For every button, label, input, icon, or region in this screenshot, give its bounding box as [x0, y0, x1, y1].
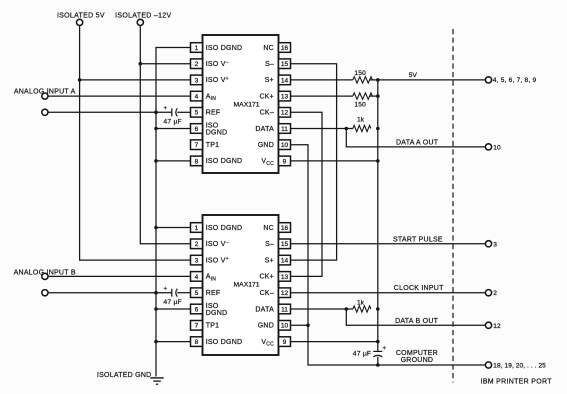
wire: analog input A to U1 pin 4 — [48, 95, 191, 97]
U2 pin 10 box — [279, 321, 291, 331]
svg-text:NC: NC — [263, 225, 274, 232]
svg-text:5V: 5V — [409, 72, 418, 79]
svg-text:ISO V–: ISO V– — [206, 60, 229, 68]
junction: ISO DGND rail at U2 pin1 — [154, 226, 158, 230]
wire: REF B terminal to capacitor C2 — [48, 292, 172, 294]
svg-text:11: 11 — [281, 126, 288, 133]
wire: capacitor C3 to computer ground — [377, 357, 379, 365]
op-amp-style IC U1 MAX171 body — [203, 35, 279, 173]
U2 pin 15 label S&#8211; — [265, 241, 274, 248]
U1 pin 14 box — [279, 75, 291, 85]
U2 pin 14 label S+ — [265, 257, 274, 264]
U2 pin 5 box — [191, 288, 203, 298]
svg-text:10: 10 — [281, 142, 289, 149]
U2 pin 5 label REF — [206, 290, 221, 297]
svg-text:11: 11 — [281, 306, 288, 313]
op-amp-style IC U2 MAX171 body — [203, 215, 279, 355]
junction: ISO DGND rail at U2 pin8 — [154, 340, 158, 344]
junction: 5V rail at R3 — [376, 127, 380, 131]
terminal printer port pin 12 — [485, 322, 501, 330]
U1 pin 10 box — [279, 140, 291, 150]
svg-text:12: 12 — [281, 290, 289, 297]
terminal ANALOG INPUT A — [14, 88, 76, 99]
svg-text:+: + — [383, 346, 387, 352]
junction: 5V rail at U1 VCC — [376, 159, 380, 163]
U2 pin 6 label ISO DGND (2-line) — [206, 303, 228, 317]
U2 pin 11 label DATA — [255, 306, 274, 313]
U2 pin 6 box — [191, 304, 203, 314]
svg-text:S+: S+ — [265, 77, 274, 84]
junction: DATA A node — [345, 127, 349, 131]
svg-text:10: 10 — [493, 144, 501, 151]
U1 pin 14 label S+ — [265, 77, 274, 84]
U1 pin 7 box — [191, 140, 203, 150]
wire: U1 pin 3 ISO V+ — [80, 79, 191, 81]
svg-text:2: 2 — [195, 61, 199, 68]
wire: U1 pin 9 VCC to 5V rail — [291, 160, 378, 162]
svg-text:13: 13 — [281, 274, 289, 281]
U2 pin 4 label AIN — [206, 274, 217, 283]
svg-text:4: 4 — [195, 274, 199, 281]
svg-text:START PULSE: START PULSE — [393, 237, 443, 244]
U2 pin 3 label ISO V+ — [206, 256, 229, 264]
U1 pin 5 label REF — [206, 110, 221, 117]
svg-text:MAX171: MAX171 — [234, 282, 260, 289]
svg-text:ISO V+: ISO V+ — [206, 76, 229, 84]
svg-text:DATA: DATA — [255, 306, 274, 313]
wire: ISO DGND rail (U1 pin1 down to isolated ground) — [156, 48, 191, 377]
resistor R1 150 — [353, 70, 373, 83]
U1 pin 12 box — [279, 108, 291, 118]
wire: U2 pin 1 ISO DGND — [156, 227, 191, 229]
junction: 5V rail at R4 — [376, 307, 380, 311]
wire: U1 pin 14 S+ to resistor R1 — [291, 79, 353, 81]
svg-text:ISO DGND: ISO DGND — [206, 225, 243, 232]
wire: U1 pin 10 GND to ground vertical rail — [291, 145, 486, 365]
svg-text:6: 6 — [195, 306, 199, 313]
wire: ISOLATED 5V rail down to U2 pin 3 — [80, 25, 191, 260]
U1 pin 9 label VCC — [261, 158, 274, 167]
junction: ground rail at U2 GND — [306, 324, 310, 328]
svg-text:TP1: TP1 — [206, 142, 220, 149]
U2 pin 13 label CK+ — [259, 274, 274, 281]
junction: ISOLATED -12V to U1 pin 2 — [139, 62, 143, 66]
wire: U2 pin 15 S- START PULSE to printer port pin 3 — [291, 237, 486, 244]
junction: computer ground at C3 — [376, 363, 380, 367]
wire: U1 pin 12 CK- to U2 pin 13 CK+ — [291, 112, 323, 276]
svg-text:CK–: CK– — [260, 110, 274, 117]
U1 pin 11 box — [279, 124, 291, 134]
svg-text:1k: 1k — [357, 300, 365, 307]
svg-text:12: 12 — [493, 323, 501, 330]
wire: resistor R2 to 5V rail — [370, 95, 378, 97]
svg-text:1k: 1k — [357, 117, 365, 124]
junction: 5V rail at R2 — [376, 94, 380, 98]
svg-text:5: 5 — [195, 110, 199, 117]
U2 pin 1 box — [191, 223, 203, 233]
svg-text:18, 19, 20, . . . 25: 18, 19, 20, . . . 25 — [493, 363, 546, 370]
wire: resistor R1 to 5V node — [370, 79, 378, 81]
resistor R2 150 — [353, 93, 373, 108]
svg-text:3: 3 — [493, 241, 497, 248]
U1 pin 13 box — [279, 91, 291, 101]
svg-text:16: 16 — [281, 45, 289, 52]
svg-text:2: 2 — [195, 241, 199, 248]
U1 pin 2 label ISO V&#8211; — [206, 60, 229, 68]
svg-text:CK+: CK+ — [259, 274, 274, 281]
svg-text:CLOCK INPUT: CLOCK INPUT — [394, 285, 444, 292]
U2 pin 2 box — [191, 239, 203, 249]
svg-text:9: 9 — [283, 339, 287, 346]
wire: U2 pin 11 DATA to resistor R4 — [291, 308, 353, 310]
svg-text:5: 5 — [195, 290, 199, 297]
terminal ANALOG INPUT B — [14, 269, 76, 279]
wire: capacitor C1 to U1 pin 5 REF — [177, 111, 190, 113]
svg-text:7: 7 — [195, 142, 199, 149]
resistor R4 1k pull-up — [353, 300, 371, 313]
U1 pin 15 box — [279, 59, 291, 69]
svg-text:MAX171: MAX171 — [234, 102, 260, 109]
U2 pin 4 box — [191, 272, 203, 282]
svg-text:IBM PRINTER PORT: IBM PRINTER PORT — [481, 378, 553, 385]
svg-text:DGND: DGND — [206, 129, 228, 136]
U1 pin 6 box — [191, 124, 203, 134]
terminal ISOLATED -12V — [115, 13, 171, 26]
U1 pin 5 box — [191, 108, 203, 118]
node 5V: label and wire to printer port — [378, 72, 486, 80]
svg-text:8: 8 — [195, 158, 199, 165]
svg-text:150: 150 — [354, 101, 366, 108]
svg-text:S–: S– — [265, 241, 274, 248]
wire: U2 pin 10 GND to ground vertical rail — [291, 324, 309, 326]
U2 pin 9 box — [279, 337, 291, 347]
ground: ISOLATED GND symbol — [97, 372, 164, 384]
wire: ISOLATED -12V rail down to U2 pin 2 — [140, 25, 190, 243]
svg-text:ISO V–: ISO V– — [206, 240, 229, 248]
U1 pin 7 label TP1 — [206, 142, 220, 149]
svg-text:10: 10 — [281, 323, 289, 330]
terminal REF B input — [42, 290, 48, 296]
svg-text:ISO V+: ISO V+ — [206, 256, 229, 264]
svg-text:GROUND: GROUND — [401, 357, 434, 364]
U2 pin 2 label ISO V&#8211; — [206, 240, 229, 248]
svg-text:DATA A OUT: DATA A OUT — [396, 140, 439, 147]
svg-text:12: 12 — [281, 110, 289, 117]
capacitor C3 47uF (computer ground bypass) — [353, 346, 387, 357]
U1 pin 1 label ISO DGND — [206, 45, 243, 52]
terminal printer port pins 18,19,20...25 — [485, 362, 546, 370]
U2 pin 12 box — [279, 288, 291, 298]
svg-text:+: + — [164, 287, 168, 293]
svg-text:6: 6 — [195, 126, 199, 133]
U2 pin 16 label NC — [263, 225, 274, 232]
U2 pin 12 label CK&#8211; — [260, 290, 274, 297]
svg-text:REF: REF — [206, 110, 221, 117]
terminal printer port pin 3 — [485, 241, 497, 249]
U1 pin 15 label S&#8211; — [265, 61, 274, 68]
wire: U1 pin 11 DATA to resistor R3 — [291, 128, 353, 130]
wire: DATA A OUT to printer port pin 10 — [346, 129, 485, 147]
wire: U1 pin 2 ISO V- — [140, 63, 190, 65]
svg-text:13: 13 — [281, 94, 289, 101]
svg-text:DATA B OUT: DATA B OUT — [395, 318, 439, 325]
svg-text:ISOLATED 5V: ISOLATED 5V — [57, 13, 105, 20]
wire: U2 pin 12 CK- CLOCK INPUT to printer port pin 2 — [291, 285, 486, 293]
svg-text:47 µF: 47 µF — [163, 119, 182, 126]
junction: ISO DGND rail at U2 REF — [154, 291, 158, 295]
junction: ISO DGND rail at U2 pin6 — [154, 307, 158, 311]
U1 pin 8 label ISO DGND — [206, 158, 243, 165]
svg-text:S+: S+ — [265, 257, 274, 264]
svg-text:GND: GND — [258, 323, 274, 330]
IBM printer port boundary (dashed) — [452, 29, 454, 383]
U2 pin 1 label ISO DGND — [206, 225, 243, 232]
terminal REF A input — [42, 109, 48, 115]
svg-text:NC: NC — [263, 45, 274, 52]
U1 pin 6 label ISO DGND (2-line) — [206, 123, 228, 137]
U1 pin 16 label NC — [263, 45, 274, 52]
wire: 5V vertical rail — [377, 80, 379, 352]
terminal ISOLATED 5V — [57, 13, 105, 26]
svg-text:ISO DGND: ISO DGND — [206, 158, 243, 165]
wire: U1 pin 13 CK+ to resistor R2 — [291, 95, 353, 97]
U2 pin 9 label VCC — [261, 339, 274, 348]
U1 pin 12 label CK&#8211; — [260, 110, 274, 117]
svg-text:REF: REF — [206, 290, 221, 297]
U1 pin 4 label AIN — [206, 93, 217, 102]
capacitor C2 47uF (U2 REF) — [163, 287, 182, 307]
U1 pin 11 label DATA — [255, 126, 274, 133]
junction: 5V rail at R1 — [376, 78, 380, 82]
U1 pin 1 box — [191, 43, 203, 53]
wire: U2 pin 8 ISO DGND — [156, 341, 191, 343]
svg-text:GND: GND — [258, 142, 274, 149]
junction: ISO DGND rail at U1 pin6 — [154, 127, 158, 131]
wire: U1 pin 8 ISO DGND — [156, 160, 191, 162]
svg-text:14: 14 — [281, 77, 289, 84]
svg-text:150: 150 — [354, 70, 366, 77]
junction: ISO DGND rail at U1 pin8 — [154, 159, 158, 163]
terminal pins 4,5,6,7,8,9 — [485, 77, 536, 84]
svg-text:2: 2 — [493, 290, 497, 297]
wire: U2 pin 9 VCC to 5V rail — [291, 341, 378, 343]
label IBM PRINTER PORT — [481, 378, 553, 385]
svg-text:15: 15 — [281, 241, 289, 248]
wire: capacitor C2 to U2 pin 5 REF — [177, 292, 190, 294]
resistor R3 1k pull-up — [353, 117, 371, 132]
U2 pin 7 label TP1 — [206, 323, 220, 330]
svg-text:8: 8 — [195, 339, 199, 346]
U2 pin 11 box — [279, 304, 291, 314]
junction: DATA B node — [345, 307, 349, 311]
capacitor C1 47uF (U1 REF) — [163, 106, 182, 126]
svg-text:+: + — [164, 106, 168, 112]
svg-text:7: 7 — [195, 323, 199, 330]
svg-text:CK–: CK– — [260, 290, 274, 297]
svg-text:16: 16 — [281, 225, 289, 232]
svg-text:ISO DGND: ISO DGND — [206, 45, 243, 52]
svg-text:3: 3 — [195, 258, 199, 265]
svg-text:3: 3 — [195, 77, 199, 84]
terminal printer port pin 2 — [485, 290, 497, 298]
U1 pin 13 label CK+ — [259, 93, 274, 100]
U1 pin 3 label ISO V+ — [206, 76, 229, 84]
U2 pin 8 box — [191, 337, 203, 347]
U1 pin 3 box — [191, 75, 203, 85]
wire: DATA B OUT to printer port pin 12 — [346, 309, 485, 325]
U2 pin 8 label ISO DGND — [206, 339, 243, 346]
svg-text:15: 15 — [281, 61, 289, 68]
svg-text:CK+: CK+ — [259, 93, 274, 100]
terminal printer port pin 10 — [485, 144, 501, 152]
wire: analog input B to U2 pin 4 — [48, 275, 191, 277]
svg-text:DGND: DGND — [206, 310, 228, 317]
U2 pin 15 box — [279, 239, 291, 249]
svg-text:S–: S– — [265, 61, 274, 68]
U1 pin 2 box — [191, 59, 203, 69]
svg-text:47 µF: 47 µF — [353, 350, 372, 357]
U2 pin 10 label GND — [258, 323, 274, 330]
svg-text:ISO DGND: ISO DGND — [206, 339, 243, 346]
wire: U2 pin 6 ISO DGND — [156, 308, 191, 310]
junction: 5V rail at U2 VCC — [376, 340, 380, 344]
wire: REF A terminal to capacitor C1 — [48, 111, 172, 113]
svg-text:14: 14 — [281, 258, 289, 265]
svg-text:4, 5, 6, 7, 8, 9: 4, 5, 6, 7, 8, 9 — [493, 77, 537, 84]
svg-text:ISOLATED –12V: ISOLATED –12V — [115, 13, 171, 20]
svg-text:DATA: DATA — [255, 126, 274, 133]
node COMPUTER GROUND label — [396, 350, 438, 364]
junction: ISOLATED 5V to U1 pin 3 — [78, 78, 82, 82]
U1 pin 4 box — [191, 91, 203, 101]
junction: ISO DGND rail at U1 REF — [154, 111, 158, 115]
U1 pin 9 box — [279, 156, 291, 166]
svg-text:1: 1 — [195, 45, 199, 52]
U2 pin 13 box — [279, 272, 291, 282]
wire: U1 pin 15 S- to U2 pin 14 S+ — [291, 64, 337, 260]
U2 pin 16 box — [279, 223, 291, 233]
U2 pin 14 box — [279, 255, 291, 265]
svg-text:4: 4 — [195, 94, 199, 101]
svg-text:ISOLATED GND: ISOLATED GND — [97, 372, 152, 379]
svg-text:TP1: TP1 — [206, 323, 220, 330]
U1 pin 8 box — [191, 156, 203, 166]
U2 pin 3 box — [191, 255, 203, 265]
svg-text:47 µF: 47 µF — [163, 299, 182, 306]
svg-text:9: 9 — [283, 158, 287, 165]
U1 pin 16 box — [279, 43, 291, 53]
U1 pin 10 label GND — [258, 142, 274, 149]
U2 pin 7 box — [191, 321, 203, 331]
wire: U1 pin 6 ISO DGND — [156, 128, 191, 130]
svg-text:1: 1 — [195, 225, 199, 232]
